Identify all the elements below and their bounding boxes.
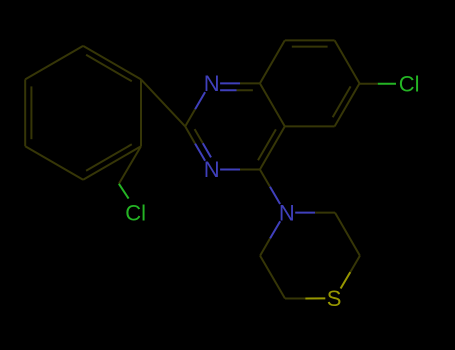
bond C6'-N thiomorpholine far half [270, 221, 280, 238]
bond N3-C4 [220, 169, 240, 171]
bond C6-Cl carbon half [360, 83, 378, 85]
inner double line N1=C8a [220, 89, 236, 91]
bond C8a-C8 [260, 40, 285, 83]
inner double line C2=N3 [195, 129, 203, 143]
bond N3-C4 far half [240, 169, 260, 171]
phenyl bond bottom-right edge [83, 146, 141, 180]
bond N1=C8a [220, 82, 240, 84]
bond C2=N3 [185, 126, 195, 143]
bond C4-N thiomorpholine far half [270, 187, 280, 204]
phenyl bond right edge [140, 79, 142, 146]
bond C4-N thiomorpholine [260, 170, 270, 187]
bond C-Cl (phenyl) chlorine half [119, 184, 129, 199]
bond C6=C5 [335, 83, 360, 126]
bond C-Cl (phenyl) carbon half [119, 146, 141, 184]
phenyl bond bottom-left edge [25, 146, 83, 180]
bond C7-C6 [335, 40, 360, 83]
bond phenyl-C2 biaryl link [141, 79, 185, 126]
svg-text:Cl: Cl [125, 200, 146, 225]
phenyl bottom-right inner double line [86, 144, 132, 171]
phenyl bond C1''-C6'' (top-right edge) [83, 46, 141, 80]
phenyl left inner double line [30, 86, 32, 139]
inner double line C5=C6 [333, 86, 351, 117]
bond C3'-S [350, 256, 360, 272]
bond C2=N3 far half [195, 144, 205, 161]
bond C5'-C6' thiomorpholine [260, 256, 285, 299]
bond C4a-C8a ring fusion [260, 83, 285, 126]
inner double line C7=C8 [292, 46, 328, 48]
bond C6'-N thiomorpholine [260, 238, 270, 255]
bond C3'-S far half [341, 272, 351, 288]
inner double line C4=C4a [258, 129, 276, 160]
bond N1-C2 [195, 92, 205, 109]
bond S-C5' [305, 297, 325, 299]
bond C4=C4a [260, 126, 285, 169]
bond N-C2' thiomorpholine [295, 212, 315, 214]
bond C2'-C3' thiomorpholine [335, 213, 360, 256]
inner double line C2=N3 far half [203, 143, 211, 157]
phenyl bond top-left edge [25, 46, 83, 80]
inner double line N1=C8a far half [237, 89, 253, 91]
svg-text:N: N [204, 71, 220, 96]
svg-text:Cl: Cl [399, 71, 420, 96]
bond C5-C4a [285, 125, 335, 127]
bond N-C2' thiomorpholine far half [315, 212, 335, 214]
bond N1=C8a far half [240, 82, 260, 84]
bond C8=C7 [285, 39, 335, 41]
phenyl bond left edge [24, 79, 26, 146]
bond N1-C2 far half [185, 109, 195, 126]
bond C6-Cl chlorine half [378, 83, 396, 85]
bond S-C5' far half [285, 298, 305, 300]
svg-text:N: N [204, 157, 220, 182]
svg-text:N: N [279, 201, 295, 226]
svg-text:S: S [327, 286, 342, 311]
phenyl C1''=C6'' inner double line [86, 55, 132, 82]
